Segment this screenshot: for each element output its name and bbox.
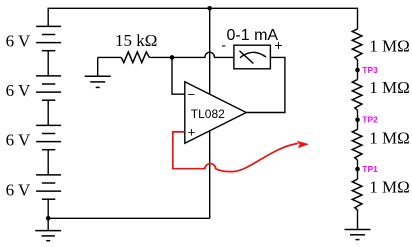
svg-text:0-1 mA: 0-1 mA: [227, 27, 279, 44]
op-amp U1 TL082 triangle: [185, 82, 246, 144]
svg-text:TP3: TP3: [362, 65, 378, 75]
resistor R2 1M: [352, 80, 362, 111]
wire: B2 to B3: [47, 100, 49, 125]
svg-text:1 MΩ: 1 MΩ: [369, 129, 410, 148]
resistor R1 1M: [352, 29, 362, 60]
node: TP2: [355, 118, 360, 123]
ground: divider bottom: [345, 230, 371, 240]
svg-text:TL082: TL082: [191, 107, 225, 121]
battery B4 6V: [36, 175, 61, 199]
red probe arrowhead: [297, 141, 309, 148]
svg-text:−: −: [188, 87, 196, 102]
wire: R1 to TP3: [357, 60, 359, 80]
wire: R2 to TP2: [357, 110, 359, 129]
wire: node to meter minus with hop over V+ line: [172, 52, 234, 57]
node: TP1: [355, 167, 360, 172]
wire: resistor to node: [149, 56, 172, 58]
meter scale arc: [240, 52, 266, 57]
wire: R4 to ground: [357, 210, 359, 230]
wire: R3 to TP1: [357, 160, 359, 179]
wire: top rail with left lead to battery and right lead to R1: [48, 8, 357, 29]
red probe wire from noninverting input with hop: [173, 132, 298, 172]
node: top rail junction: [207, 6, 212, 11]
svg-text:6 V: 6 V: [6, 180, 31, 199]
battery B1 6V: [36, 26, 61, 50]
ground: input reference: [97, 57, 99, 76]
svg-text:+: +: [274, 37, 282, 53]
svg-text:TP2: TP2: [362, 115, 378, 125]
wire: op-amp output to meter plus: [246, 57, 285, 112]
svg-text:+: +: [188, 124, 196, 139]
meter M1 box: [234, 45, 271, 69]
svg-text:15 kΩ: 15 kΩ: [115, 31, 157, 50]
meter needle: [240, 51, 254, 64]
resistor 15 k: [121, 52, 149, 63]
wire: bottom rail: [48, 199, 210, 230]
resistor R4 1M: [352, 179, 362, 210]
svg-text:-: -: [221, 37, 226, 53]
svg-text:1 MΩ: 1 MΩ: [369, 78, 410, 97]
resistor R3 1M: [352, 129, 362, 160]
battery B3 6V: [36, 125, 61, 149]
wire: node to op-amp inverting input: [172, 57, 185, 94]
ground: battery bottom: [35, 231, 61, 241]
svg-text:6 V: 6 V: [6, 31, 31, 50]
node: TP3: [355, 68, 360, 73]
wire: B1 to B2: [47, 51, 49, 76]
svg-text:6 V: 6 V: [6, 81, 31, 100]
wire: ground to resistor: [98, 56, 122, 58]
svg-text:6 V: 6 V: [6, 131, 31, 150]
node: bottom rail junction: [46, 216, 51, 221]
battery B2 6V: [36, 76, 61, 100]
node: inverting input junction: [170, 55, 175, 60]
wire: V+ vertical from top rail to bottom rail: [209, 8, 211, 218]
svg-text:TP1: TP1: [362, 164, 378, 174]
svg-text:1 MΩ: 1 MΩ: [369, 37, 410, 56]
svg-text:1 MΩ: 1 MΩ: [369, 178, 410, 197]
wire: B3 to B4: [47, 150, 49, 175]
